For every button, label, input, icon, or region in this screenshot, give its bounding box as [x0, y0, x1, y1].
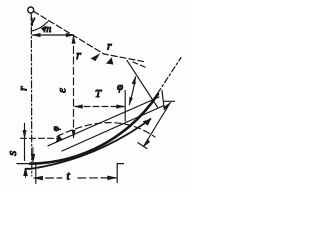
arrowhead at bottom arc end	[143, 119, 151, 126]
short parallel dash (second radius position)	[133, 62, 146, 68]
tangent dash-dot line at right end	[158, 58, 182, 94]
svg-text:t: t	[67, 169, 71, 183]
vertical dash-dot centerline (left radius r)	[30, 14, 33, 177]
svg-text:T: T	[95, 88, 102, 100]
svg-text:s: s	[4, 151, 19, 156]
t dimension line	[34, 177, 116, 179]
second chord line A2	[48, 97, 159, 146]
s up arrow below	[24, 168, 27, 178]
thick top surface arc of strip	[30, 94, 158, 164]
phi arc top arrowhead	[132, 77, 136, 85]
m left arrowhead	[32, 33, 40, 37]
up arrowhead at its top	[72, 36, 75, 44]
T dimension dashed line	[75, 106, 124, 108]
radius-parallel extension at bottom of slanted dim	[138, 143, 147, 149]
svg-text:r: r	[76, 47, 82, 62]
phi arc bottom arrowhead	[129, 97, 133, 105]
bottom surface arc of strip	[26, 119, 151, 169]
gamma angle arc	[32, 22, 49, 32]
vertical dashed dimension line at x=73.5	[73, 36, 75, 138]
phi angle arc with arrows	[129, 77, 135, 105]
horizontal bar extension	[164, 100, 175, 102]
near-vertical extension line at right	[162, 91, 164, 110]
s dimension: upper line with down arrow	[24, 123, 26, 160]
svg-text:r: r	[15, 86, 29, 91]
svg-text:m: m	[44, 23, 52, 35]
down arrowhead near arc top	[31, 147, 34, 162]
arrowhead on chord A2	[56, 135, 63, 142]
T right arrowhead	[117, 105, 125, 109]
m dimension line	[32, 34, 73, 36]
t right arrowhead	[108, 176, 117, 180]
small arrowhead 2 below line	[107, 58, 114, 65]
phi ray line	[127, 61, 158, 109]
t left arrowhead	[34, 176, 43, 180]
t left extension line	[35, 164, 37, 184]
center point circle O	[28, 7, 34, 13]
thin left extension of arc at s datum	[17, 163, 31, 165]
chord line A	[62, 106, 164, 152]
svg-text:r: r	[107, 39, 112, 53]
dashed arc B	[57, 123, 155, 137]
svg-text:ε: ε	[54, 88, 68, 93]
m right arrowhead	[66, 33, 74, 37]
svg-text:φ: φ	[117, 81, 123, 93]
T left arrowhead	[75, 105, 83, 109]
T extension tick vertical	[124, 91, 126, 122]
t right extension with top bar	[117, 163, 123, 182]
its top arrowhead	[164, 102, 171, 110]
svg-text:γ: γ	[31, 15, 36, 26]
gamma arc arrowhead	[41, 27, 46, 31]
horizontal dashed line H	[21, 137, 59, 139]
inclined dashed radius line r from O	[33, 11, 146, 62]
its bottom arrowhead	[143, 139, 150, 147]
down arrowhead at its bottom on line H	[72, 130, 75, 138]
small arrowhead on inclined line	[91, 54, 100, 61]
svg-text:φ: φ	[51, 126, 61, 131]
slanted dimension line right side	[144, 103, 171, 147]
down arrowhead on H at x=24.5	[23, 130, 26, 138]
